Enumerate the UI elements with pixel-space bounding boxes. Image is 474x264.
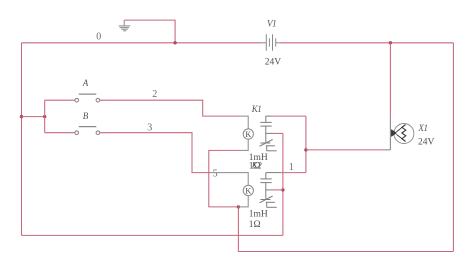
- wire lamp branch vertical: [389, 43, 391, 116]
- svg-text:1Ω: 1Ω: [249, 220, 261, 230]
- wire right rail: [452, 43, 454, 252]
- wire net 1 vertical right: [305, 116, 307, 173]
- svg-text:K: K: [245, 130, 251, 139]
- switch B: [75, 127, 100, 135]
- wire to switch B: [45, 132, 75, 134]
- wire to bottom right rail: [238, 207, 453, 252]
- wire top rail left of battery V1: [22, 42, 262, 44]
- battery V1: [262, 34, 280, 51]
- switch A: [75, 94, 100, 102]
- junction at lamp branch: [389, 41, 392, 44]
- svg-text:A: A: [82, 78, 89, 88]
- junction switch branch: [43, 115, 46, 118]
- wire switch branch vertical: [44, 100, 46, 133]
- relay K1 contacts: [260, 116, 277, 151]
- svg-text:1: 1: [289, 162, 294, 173]
- junction on left rail: [20, 115, 23, 118]
- svg-text:X1: X1: [417, 123, 427, 133]
- wire bottom left return: [22, 234, 283, 236]
- svg-text:24V: 24V: [265, 57, 282, 67]
- wire top rail right of battery: [280, 42, 454, 44]
- svg-text:V1: V1: [267, 19, 276, 29]
- wire ground to node 0 horizontal: [124, 20, 175, 43]
- wire left rail: [21, 43, 23, 236]
- svg-text:0: 0: [96, 32, 101, 43]
- wire to switch A: [45, 99, 75, 101]
- relay K2 coil: [210, 173, 253, 207]
- wire K1 coil bottom to K2 coil bottom: [209, 150, 239, 207]
- wire K1 contact top to net 1 vertical: [273, 115, 306, 117]
- svg-text:K2: K2: [251, 161, 263, 171]
- svg-text:K1: K1: [251, 104, 262, 114]
- junction lamp return: [304, 148, 307, 151]
- junction K2 coil bottom: [237, 205, 240, 208]
- wire net 2 from switch A to relay K1 coil: [100, 100, 240, 116]
- wire K1 common tap: [273, 132, 283, 134]
- relay K1 coil: [239, 116, 254, 150]
- svg-text:24V: 24V: [418, 137, 435, 147]
- wire lamp return to net 1: [306, 149, 385, 151]
- svg-text:3: 3: [147, 123, 152, 134]
- wire K2 common tap: [273, 189, 283, 191]
- wire net 3 from switch B: [100, 133, 210, 173]
- lamp X1: [385, 115, 414, 150]
- svg-text:K: K: [245, 187, 251, 196]
- svg-text:1mH: 1mH: [249, 210, 268, 220]
- relay K2 contacts: [260, 173, 281, 208]
- wire tap to switches: [22, 116, 45, 118]
- junction at ground tap: [173, 41, 176, 44]
- svg-text:5: 5: [213, 169, 218, 180]
- junction K2 common: [281, 188, 284, 191]
- wire net 1 vertical left: [282, 133, 284, 235]
- wire K2 contact top to net 1: [280, 172, 306, 174]
- svg-text:B: B: [83, 111, 89, 121]
- svg-text:2: 2: [152, 89, 157, 100]
- ground: [119, 20, 131, 31]
